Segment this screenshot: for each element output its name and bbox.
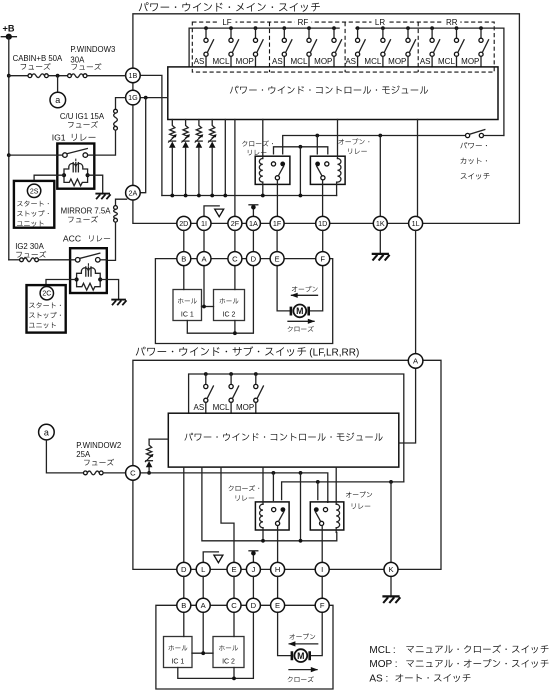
junction +B / CABIN fuse: [7, 74, 11, 78]
svg-text:AS :: AS :: [369, 674, 388, 685]
connector I (sub): [315, 562, 329, 576]
module pin to bus: [223, 120, 227, 198]
title: power window sub switch: [136, 346, 360, 358]
module pin to 2F: [234, 120, 236, 217]
circle a (top): [50, 92, 66, 108]
wire +B to IG2 fuse: [9, 259, 20, 261]
svg-text:C: C: [232, 254, 238, 263]
svg-text:D: D: [251, 254, 257, 263]
svg-text:1B: 1B: [129, 71, 138, 80]
sub switch bus: [189, 374, 404, 482]
svg-text:MCL: MCL: [213, 403, 230, 412]
wire link (sub) x=234: [233, 576, 235, 598]
connector 1F: [270, 216, 284, 230]
junction C/relay NO contacts: [272, 471, 276, 500]
coil common net (sub): [202, 467, 337, 543]
open direction label: [291, 286, 318, 298]
svg-text:30A: 30A: [70, 55, 85, 64]
svg-text:1L: 1L: [412, 219, 420, 228]
legend AS: [369, 674, 470, 685]
wire 1B to resistor bus: [140, 75, 162, 195]
open relay label: [338, 139, 369, 154]
close coil leads (sub): [261, 467, 265, 543]
circle a (bottom): [39, 424, 55, 440]
connector A: [408, 354, 423, 369]
wire connector link x=253: [252, 230, 254, 251]
hall IC2 box: [214, 290, 245, 321]
svg-text:AS: AS: [345, 57, 356, 66]
svg-text:ACC: ACC: [63, 233, 81, 243]
wire C to IC2: [234, 266, 236, 290]
svg-text:RF: RF: [298, 18, 309, 27]
connector 1G: [126, 90, 141, 105]
wire fuse to IG1 relay: [94, 130, 115, 155]
title: power window main switch: [139, 2, 320, 12]
resistor R col 186: [181, 120, 190, 198]
connector 1I: [197, 216, 211, 230]
svg-text:MIRROR 7.5A: MIRROR 7.5A: [61, 207, 112, 216]
motor M2: [292, 649, 310, 662]
ACC coil lead to 2C unit: [46, 280, 77, 286]
svg-text:D: D: [251, 601, 257, 610]
svg-text:MCL: MCL: [213, 57, 230, 66]
svg-text:a: a: [44, 427, 49, 437]
svg-text:MOP: MOP: [236, 57, 254, 66]
resistor (sub): [145, 439, 154, 475]
net: relay fixed contacts to power cut switch (grounded via 1K): [283, 134, 466, 217]
switch RR MOP: [479, 26, 489, 67]
label IG1 relay: [52, 133, 96, 143]
resistor bus / relay common net: [162, 195, 337, 197]
svg-text:J: J: [252, 565, 256, 574]
terminal A (sub motor): [196, 598, 210, 612]
connector 2C: [40, 287, 53, 300]
wire link (sub) x=322: [321, 576, 323, 598]
switch RF MCL: [307, 26, 317, 67]
switch bus LR+RR (to power cut switch): [356, 28, 504, 135]
svg-text:MCL :: MCL :: [369, 645, 395, 656]
wire module to D: [183, 467, 185, 562]
wire connector link x=323: [322, 230, 324, 251]
close relay label (sub): [229, 485, 260, 501]
module pin to resistor: [149, 438, 168, 440]
junction to coil common: [299, 471, 303, 541]
terminal D (main motor): [246, 252, 260, 266]
svg-text:MCL: MCL: [438, 57, 455, 66]
wire connector link x=204: [203, 230, 205, 251]
svg-text:B: B: [181, 254, 186, 263]
connector 2F: [228, 216, 242, 230]
svg-text:K: K: [388, 565, 393, 574]
terminal F (main motor): [316, 252, 330, 266]
terminal B (main motor): [177, 252, 191, 266]
wire C feed: [140, 473, 328, 503]
connector 1A: [246, 216, 260, 230]
dashed switch group box: [192, 22, 494, 72]
svg-text:IG1: IG1: [52, 133, 66, 143]
motor unit box (main): [155, 259, 332, 344]
wire fuse to 1B: [87, 75, 126, 77]
wire link (sub) x=184: [183, 576, 185, 598]
wire B to IC1 (sub): [183, 612, 185, 636]
close direction label: [288, 319, 315, 332]
wire A to module: [399, 368, 416, 443]
open relay K2: [310, 156, 345, 184]
wire 1L to A: [415, 230, 417, 353]
motor unit box (sub): [156, 605, 333, 689]
label P.WINDOW3 30A: [70, 45, 115, 70]
control module U1: [168, 67, 498, 120]
hall IC1 box (sub): [164, 637, 193, 668]
wire D to IC bottoms (sub): [178, 612, 254, 680]
wire connector link x=184: [183, 230, 185, 251]
connector J (sub): [246, 562, 260, 576]
sub switch unit outer box: [133, 360, 441, 569]
sub switch AS: [204, 372, 214, 413]
ACC coil lead to ground: [100, 280, 126, 306]
svg-text:AS: AS: [194, 403, 205, 412]
svg-text:2S: 2S: [30, 188, 39, 195]
group label LF: [219, 18, 236, 28]
svg-text:AS: AS: [194, 57, 205, 66]
wire +B to IG1 switch: [7, 153, 57, 157]
net: relay NO contacts tie: [274, 145, 328, 196]
wire C to IC2 (sub): [233, 612, 235, 636]
wire link (sub) x=203: [202, 576, 204, 598]
legend MOP: [369, 659, 548, 670]
switch RR AS: [430, 26, 440, 67]
connector K (sub): [384, 562, 398, 576]
wire close movable to H: [277, 526, 279, 563]
step symbol above 1I: [204, 206, 224, 217]
svg-text:2D: 2D: [179, 219, 188, 228]
wire A to ICs: [202, 266, 214, 309]
terminal C (main motor): [228, 252, 242, 266]
resistor R col 199: [195, 120, 204, 198]
wire to circle a: [57, 76, 59, 93]
wire open movable to I: [321, 526, 323, 563]
label IG2 30A fuse: [15, 242, 46, 258]
power cut switch label: [460, 142, 489, 179]
label ACC relay: [63, 233, 110, 243]
svg-text:E: E: [275, 601, 280, 610]
wire 2A to MIRROR fuse: [116, 199, 127, 205]
svg-text:1A: 1A: [249, 219, 258, 228]
fuse IG2 30A: [20, 258, 24, 262]
terminal F (sub motor): [315, 598, 329, 612]
label C/U IG1 15A fuse: [60, 112, 105, 128]
svg-text:1I: 1I: [201, 219, 207, 228]
fuse P.WINDOW2 25A: [84, 471, 88, 475]
module pin to 1L: [417, 120, 419, 217]
terminal D (sub motor): [246, 598, 260, 612]
svg-text:CABIN+B 50A: CABIN+B 50A: [13, 54, 63, 63]
terminal B (sub motor): [177, 598, 191, 612]
IG1 relay K3: [57, 144, 94, 189]
wire link (sub) x=253: [252, 576, 254, 598]
svg-text:AS: AS: [420, 57, 431, 66]
svg-text:C: C: [231, 601, 237, 610]
switch LR AS: [356, 26, 366, 67]
svg-text:P.WINDOW3: P.WINDOW3: [70, 45, 115, 54]
connector 2D: [177, 216, 191, 230]
2S unit label: [17, 201, 49, 227]
svg-text:2F: 2F: [231, 219, 240, 228]
connector 1B: [126, 68, 141, 83]
close direction label (sub): [288, 667, 318, 682]
switch RF AS: [282, 26, 292, 67]
svg-text:P.WINDOW2: P.WINDOW2: [76, 441, 121, 450]
step symbol above L: [203, 552, 223, 563]
wire close relay movable to 1F: [276, 180, 278, 217]
wire open relay movable to 1D: [322, 180, 324, 217]
svg-text:B: B: [181, 601, 186, 610]
dot-bar symbol above J: [249, 551, 258, 563]
svg-text:I: I: [321, 565, 323, 574]
label P.WINDOW2 25A: [76, 441, 121, 466]
+B supply node: [1, 24, 16, 260]
resistor R col 212: [208, 120, 217, 198]
dot-bar symbol above 1A: [249, 205, 258, 217]
ACC relay K4: [70, 248, 107, 293]
dashed divider LR/RR: [417, 22, 419, 72]
group label RR: [443, 18, 460, 28]
connector E (sub): [227, 562, 241, 576]
main switch unit outer box: [133, 14, 520, 224]
svg-text:AS: AS: [272, 57, 283, 66]
svg-text:MOP: MOP: [314, 57, 332, 66]
svg-text:+B: +B: [3, 24, 15, 34]
open relay label (sub): [346, 491, 372, 508]
control module U2: [168, 413, 398, 467]
connector C: [126, 466, 141, 481]
svg-text:MOP :: MOP :: [369, 659, 397, 670]
wire B to IC1: [183, 266, 185, 290]
close relay label: [242, 140, 273, 155]
svg-text:F: F: [320, 601, 325, 610]
svg-text:MOP: MOP: [461, 57, 479, 66]
switch LR MCL: [381, 26, 391, 67]
switch bus LF+RF: [189, 28, 339, 67]
svg-text:RR: RR: [446, 18, 458, 27]
label CABIN+B 50A: [13, 54, 63, 70]
wire 1G to vertical fuse: [116, 98, 126, 110]
dashed divider LF/RF: [269, 22, 271, 72]
connector L (sub): [196, 562, 210, 576]
open coil leads: [336, 120, 339, 196]
svg-text:L: L: [201, 565, 205, 574]
terminal E (main motor): [270, 252, 284, 266]
svg-text:2A: 2A: [129, 188, 138, 197]
hall IC2 label: [220, 298, 239, 318]
svg-text:F: F: [320, 254, 325, 263]
svg-text:IC 1: IC 1: [181, 311, 194, 318]
wire fuse to C: [103, 472, 126, 474]
group label LR: [372, 18, 389, 28]
hall IC1 label: [178, 298, 197, 318]
connector 2S: [27, 184, 40, 197]
connector 2A: [126, 185, 141, 200]
close relay K1: [255, 156, 290, 184]
svg-text:C/U IG1 15A: C/U IG1 15A: [60, 112, 105, 121]
power cut switch S1: [466, 130, 485, 138]
connector 1L: [409, 216, 423, 230]
svg-text:M: M: [297, 651, 304, 661]
wire 1G to module: [140, 97, 168, 99]
connector 1K: [373, 216, 387, 230]
hall IC1 box: [173, 290, 202, 321]
svg-text:LR: LR: [375, 18, 385, 27]
wire connector link x=235: [234, 230, 236, 251]
svg-text:E: E: [275, 254, 280, 263]
svg-text:E: E: [231, 565, 236, 574]
connector D (sub): [177, 562, 191, 576]
start stop unit 2S box: [14, 181, 54, 228]
dashed divider RF/LR: [344, 22, 346, 72]
svg-text:IC 2: IC 2: [222, 658, 235, 665]
wire power cut switch to bus: [484, 135, 504, 137]
wire MIRROR fuse to ACC relay: [107, 222, 116, 260]
svg-text:MOP: MOP: [388, 57, 406, 66]
wire E to motor: [277, 266, 290, 311]
net: fixed contacts / K ground: [282, 480, 404, 500]
fuse MIRROR 7.5A: [114, 206, 118, 210]
group label RF: [295, 18, 312, 28]
wire link (sub) x=278: [277, 576, 279, 598]
svg-text:1F: 1F: [273, 219, 282, 228]
wire between fuses: [48, 75, 67, 77]
connector 1D: [316, 216, 330, 230]
svg-text:IG2 30A: IG2 30A: [15, 242, 44, 251]
wire F to motor (sub): [311, 612, 323, 655]
connector H (sub): [271, 562, 285, 576]
junction to a: [56, 74, 60, 78]
hall IC2 label (sub): [219, 645, 238, 665]
terminal E (sub motor): [271, 598, 285, 612]
wire IG2 fuse to ACC relay: [39, 259, 71, 262]
ground below K: [382, 576, 400, 603]
close relay K5: [255, 502, 289, 530]
wire F to motor: [310, 266, 323, 311]
svg-text:C: C: [130, 469, 136, 478]
svg-text:MCL: MCL: [291, 57, 308, 66]
motor M1: [291, 305, 309, 318]
svg-text:M: M: [296, 306, 303, 316]
terminal A (main motor): [197, 252, 211, 266]
fuse P.WINDOW3 30A: [68, 74, 72, 78]
open direction label (sub): [288, 634, 318, 647]
hall IC2 box (sub): [213, 637, 244, 668]
svg-text:25A: 25A: [76, 450, 91, 459]
sub switch MOP: [254, 372, 264, 413]
wire D to IC bottoms: [187, 266, 253, 336]
wire connector link x=277: [276, 230, 278, 251]
wire module to E (jog): [221, 467, 234, 562]
svg-text:LF: LF: [222, 18, 231, 27]
start stop unit 2C box: [27, 285, 66, 333]
resistor R col 172: [168, 120, 177, 198]
fuse CABIN+B 50A: [28, 74, 32, 78]
svg-text:D: D: [181, 565, 187, 574]
wire a to fuse: [46, 440, 83, 473]
open coil leads (sub): [335, 467, 337, 532]
wire A to ICs (sub): [192, 612, 213, 655]
label MIRROR 7.5A fuse: [61, 207, 112, 223]
svg-text:1K: 1K: [376, 219, 385, 228]
sub switch MCL: [229, 372, 239, 413]
svg-text:H: H: [275, 565, 280, 574]
2C unit label: [29, 302, 61, 328]
switch LR MOP: [406, 26, 416, 67]
switch LF MCL: [229, 26, 239, 67]
svg-text:2C: 2C: [42, 291, 51, 298]
junction K riser: [389, 480, 393, 562]
legend MCL: [369, 645, 548, 656]
svg-text:MOP: MOP: [236, 403, 254, 412]
svg-text:IC 2: IC 2: [223, 311, 236, 318]
hall IC1 label (sub): [169, 645, 188, 665]
open relay K6: [310, 502, 344, 530]
junction 1G/2A: [144, 96, 148, 100]
switch RR MCL: [454, 26, 464, 67]
svg-text:MCL: MCL: [364, 57, 381, 66]
switch LF AS: [204, 26, 214, 67]
close coil leads: [261, 120, 265, 198]
svg-text:IC 1: IC 1: [171, 658, 184, 665]
switch RF MOP: [332, 26, 342, 67]
wire +B to CABIN fuse: [9, 75, 28, 77]
IG1 coil lead to 2S unit: [34, 175, 64, 181]
wire 2A riser: [140, 98, 146, 193]
svg-text:1G: 1G: [128, 93, 138, 102]
terminal C (sub motor): [227, 598, 241, 612]
svg-text:(LF,LR,RR): (LF,LR,RR): [309, 348, 359, 359]
wire E to motor (sub): [278, 612, 291, 655]
svg-text:a: a: [55, 95, 60, 105]
switch LF MOP: [253, 26, 263, 67]
svg-text:1D: 1D: [318, 219, 327, 228]
ground below 1K: [372, 230, 390, 260]
IG1 coil lead to ground: [88, 175, 111, 199]
fuse C/U IG1 15A: [114, 109, 118, 113]
